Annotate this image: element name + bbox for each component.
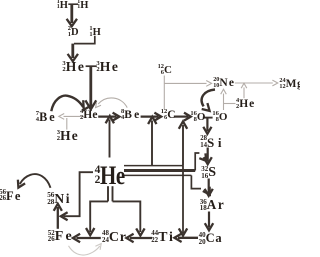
wire O16 to Ne20 (gray) [221,89,227,110]
node He4 big (alpha reservoir) [95,160,132,191]
arrow alpha feed to Be8+alpha [148,117,156,166]
arrow He3+He3 to He4 [85,66,96,109]
wire alpha bus main [124,169,195,172]
wire O16-O16 connector [203,117,213,119]
arrow Be7 decay to He4 (curved) [51,96,92,112]
wire C12+C12 to Ne20 (gray) [164,81,211,87]
wire D+H bracket [74,36,95,44]
node O16 left [190,111,205,123]
arrow D+p to He3 [68,44,78,62]
wire He3-He3 connector [86,65,97,67]
arrow O16+O16 to Si28 [203,118,211,134]
arrow Ne20 photodisintegration to O16 (curved) [202,90,215,111]
wire alpha feed to Ca40+alpha [179,166,187,236]
node Ar36 [200,197,226,213]
wire alpha to Ne20-Mg24 (gray) [241,83,247,98]
arrow alpha feed to Ti44+alpha [86,228,94,235]
wire Ne20 to Mg24 (gray) [235,80,278,86]
node Be7 [36,110,57,125]
node He3 left [62,59,85,75]
wire H1-H2 connector [68,3,78,5]
wire C12 top vertical (gray) [163,76,165,110]
wire He4 bracket right arm [113,201,141,232]
arrow He4 to Be8 [98,113,119,121]
arrow Fe52 to Ni56 [54,204,62,229]
wire alpha to O16-Ne20 (gray) [224,103,236,105]
arrow Fe52 to Cr48 reverse (gray curved) [69,244,102,255]
wire He4+He3 to Be7 (gray) [59,114,84,120]
node He4 main [80,109,98,121]
arrow alpha feed to He4+He4 [106,116,114,158]
wire alpha bus upper [124,165,183,167]
node Ca40 [199,231,223,246]
wire alpha feed to Si28+alpha [195,153,206,171]
node Si28 [200,135,225,151]
arrow Cr48 to Fe52 [73,234,101,242]
arrow S32 to Ar36 [205,179,213,196]
node H1 [57,0,68,11]
arrow p+p to D [67,4,77,26]
node H2 [77,0,88,11]
node Ne20 [213,77,235,89]
node He4 alpha [236,98,255,110]
node C12 main [161,109,176,121]
wire alpha bus lower [124,174,191,176]
arrow Be8 decay to He4 (gray curved) [96,98,128,108]
arrow Ti44 to Cr48 [126,234,152,242]
wire alpha feed to S32+alpha [191,175,209,194]
node Mg24 [279,78,303,90]
node Ni56 [47,191,71,207]
wire He4 bracket left stem [107,186,109,201]
node Ti44 [151,230,174,246]
node Be8 [121,109,141,121]
wire He3 feed (gray) [66,118,68,130]
arrow alpha feed to C12+alpha [179,121,187,165]
wire alpha feed to Ni56 path [61,172,93,220]
node S32 [201,165,216,181]
node Cr48 [102,230,127,246]
arrow Ca40 to Ti44 [174,234,198,242]
arrow Be8 to C12 [141,113,162,121]
wire He4 bracket right stem [112,186,114,201]
arrow Ni56 decay to Fe56 (curved) [18,174,51,188]
node H3 [89,26,100,38]
arrow C12 to O16 [174,113,191,121]
node C12 top [158,64,172,76]
arrow Si28 to S32 [204,148,212,165]
arrow Ar36 to Ca40 [205,212,213,231]
node He3 right [96,59,119,75]
wire He4 bracket left arm [90,201,108,232]
node Fe52 [48,229,74,245]
node O16 right [212,111,227,123]
arrow alpha feed to Ca40-Ti44 [136,228,144,235]
node D2 [68,26,79,38]
node Fe56 [0,189,22,204]
node He3 lower [57,128,79,144]
